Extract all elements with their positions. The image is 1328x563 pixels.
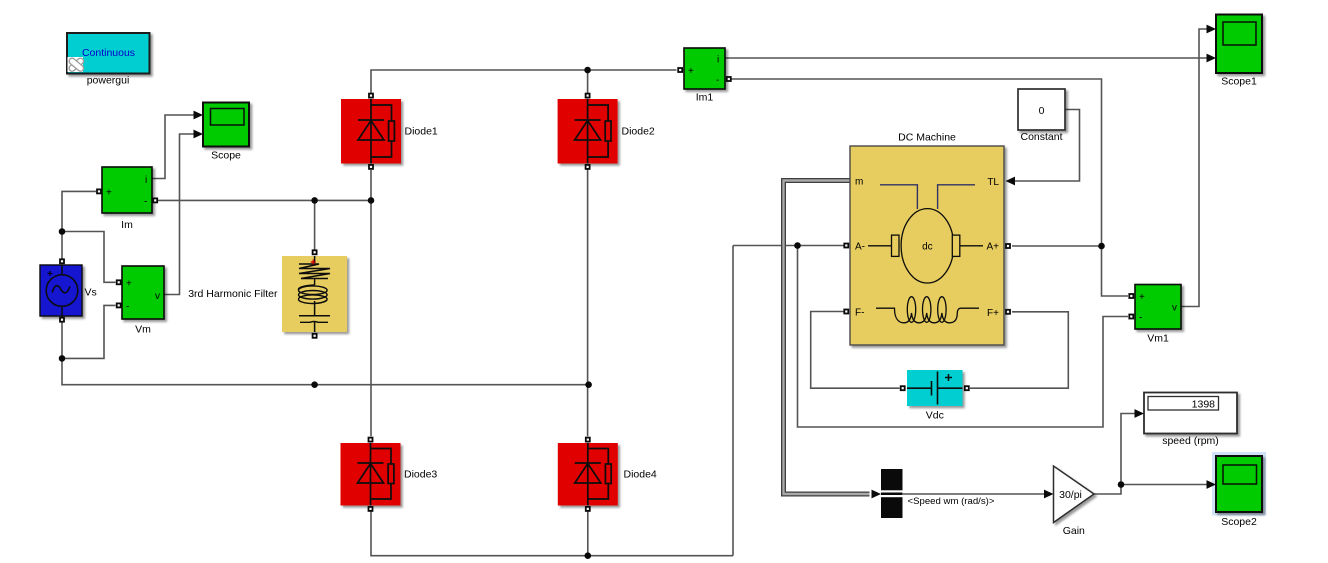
wire Vs- down to junction B (61, 317, 63, 359)
svg-text:Gain: Gain (1063, 525, 1085, 537)
port square Filter top (312, 249, 318, 255)
svg-text:Diode3: Diode3 (404, 469, 437, 481)
junction node A- branch (794, 242, 801, 249)
svg-text:v: v (1172, 303, 1177, 314)
wire left node down to negative DC rail (732, 246, 734, 556)
wire Diode2 bottom to Diode4 top (587, 167, 589, 436)
speed display block (1144, 393, 1237, 434)
svg-text:F+: F+ (987, 308, 999, 319)
wire Gain output up to speed display (1094, 414, 1136, 495)
wire Bus Selector output to Gain input (903, 493, 1045, 495)
arrowhead Bus Selector input (872, 490, 882, 499)
arrowhead Scope input 2 (194, 130, 204, 139)
port square Vm1 - (1128, 314, 1134, 320)
powergui block (67, 33, 150, 74)
Gain block (1054, 466, 1095, 523)
svg-text:Constant: Constant (1020, 131, 1062, 143)
wire Vm v output to Scope input 2 (164, 134, 194, 295)
Bus Selector block (881, 469, 903, 518)
port square Vs bottom (59, 317, 65, 323)
DC Machine block (850, 146, 1004, 345)
junction node filter bottom tap (311, 381, 318, 388)
port square Diode1 bottom (368, 164, 374, 170)
svg-text:+: + (126, 279, 132, 290)
wire F- to Vdc left terminal (811, 312, 900, 389)
Constant block (1018, 89, 1065, 130)
port square Vm1 + (1128, 293, 1134, 299)
arrowhead Scope input 1 (194, 111, 204, 120)
svg-text:Vs: Vs (85, 287, 97, 299)
port square Vdc left (900, 385, 906, 391)
port square DC Machine A+ (1005, 243, 1011, 249)
Scope1 block (1216, 15, 1262, 74)
svg-text:+: + (106, 188, 112, 199)
wire A- to left node (733, 245, 844, 247)
svg-text:Diode2: Diode2 (622, 126, 655, 138)
junction node top DC rail at Diode2 (584, 67, 591, 74)
wire Gain output branch to Scope2 (1121, 484, 1207, 486)
svg-text:A+: A+ (986, 242, 999, 253)
port square Diode3 top (368, 437, 374, 443)
svg-text:<Speed wm (rad/s)>: <Speed wm (rad/s)> (908, 496, 995, 507)
svg-text:m: m (855, 177, 863, 188)
svg-text:-: - (1139, 313, 1142, 324)
AC voltage source Vs block (40, 265, 82, 316)
Scope block (203, 103, 249, 147)
current measurement Im block (102, 167, 152, 213)
wire A+ junction to A+ port (1012, 245, 1102, 247)
DC voltage source Vdc block (907, 370, 963, 406)
arrowhead speed display input (1135, 409, 1145, 418)
svg-text:powergui: powergui (87, 75, 130, 87)
port square DC Machine A- (843, 243, 849, 249)
wire junction B to bottom AC rail and Diode2/Diode4 midpoint (62, 358, 589, 384)
svg-text:Scope1: Scope1 (1221, 75, 1257, 87)
wire A+ junction to Vm1+ (1102, 246, 1129, 296)
junction node filter top tap (311, 197, 318, 204)
port square Vdc right (964, 385, 970, 391)
arrowhead Scope2 input (1207, 480, 1217, 489)
svg-text:0: 0 (1039, 105, 1045, 117)
port square Im1 - (726, 76, 732, 82)
bus wire m output to Bus Selector (outer) (784, 181, 870, 495)
wire junction A to Vm+ (62, 232, 116, 283)
port square Im + (96, 189, 102, 195)
port square Diode2 top (585, 93, 591, 99)
voltage measurement Vm1 block (1135, 285, 1181, 330)
svg-text:30/pi: 30/pi (1059, 489, 1082, 501)
port square DC Machine F+ (1005, 309, 1011, 315)
wire negative DC rail to Diode3 bottom (371, 509, 733, 556)
Scope2 selection highlight (1212, 452, 1266, 516)
svg-text:DC Machine: DC Machine (898, 132, 956, 144)
port square Diode1 top (368, 93, 374, 99)
wire Im i output to Scope input 1 (153, 115, 195, 179)
port square DC Machine F- (843, 309, 849, 315)
port square Filter bottom (312, 333, 318, 339)
arrowhead Gain input (1044, 490, 1054, 499)
svg-text:-: - (716, 75, 719, 86)
port square Vm - (116, 303, 122, 309)
Diode3 block (341, 443, 401, 506)
port square Im1 + (677, 67, 683, 73)
wire Diode4 bottom to negative DC rail (587, 509, 589, 556)
svg-text:Vdc: Vdc (926, 410, 944, 422)
svg-text:v: v (155, 291, 160, 302)
svg-text:3rd Harmonic Filter: 3rd Harmonic Filter (188, 288, 278, 300)
wire Im1- down to A+ junction (730, 79, 1102, 246)
Scope2 block (1216, 456, 1262, 512)
svg-text:A-: A- (855, 242, 865, 253)
svg-text:Vm: Vm (135, 324, 151, 336)
svg-text:-: - (126, 302, 129, 313)
svg-text:-: - (144, 197, 147, 208)
svg-text:dc: dc (922, 242, 933, 253)
port square Vs top (59, 258, 65, 264)
svg-text:+: + (47, 269, 53, 280)
voltage measurement Vm block (122, 266, 164, 319)
svg-text:+: + (1139, 292, 1145, 303)
junction node D2/D4 midpoint (585, 381, 592, 388)
wire Vm1 v output to Scope1 input 1 (1182, 29, 1208, 307)
svg-text:Diode1: Diode1 (405, 126, 438, 138)
wire Diode1 top to Im1+ along top DC rail (371, 70, 677, 96)
arrowhead Scope1 input 1 (1207, 25, 1217, 34)
wire Diode2 top to top DC rail (587, 70, 589, 96)
port square Im - (152, 198, 158, 204)
svg-text:Scope2: Scope2 (1221, 516, 1257, 528)
Diode4 block (558, 443, 618, 506)
arrowhead TL input (1006, 177, 1016, 186)
svg-text:+: + (688, 66, 694, 77)
wire node to 3rd Harmonic Filter top (314, 200, 316, 249)
svg-text:i: i (145, 175, 147, 186)
arrowhead Scope1 input 2 (1207, 54, 1217, 63)
svg-text:Continuous: Continuous (82, 47, 135, 59)
current measurement Im1 block (684, 48, 725, 89)
junction node negative rail at Diode4 (585, 552, 592, 559)
wire junction B to Vm- (62, 305, 116, 358)
junction node A+ branch (1098, 243, 1105, 250)
3rd Harmonic Filter block (282, 256, 347, 332)
Diode1 block (341, 99, 401, 164)
svg-text:Im: Im (121, 219, 133, 231)
port square Vm + (116, 279, 122, 285)
wire Diode1 bottom to Diode3 top (370, 170, 372, 436)
wire Constant to TL input (1015, 110, 1080, 182)
wire Im- to D1/D3 midpoint node (158, 199, 371, 201)
svg-text:1398: 1398 (1192, 399, 1216, 411)
junction node Gain output branch (1118, 481, 1125, 488)
port square Diode4 top (585, 437, 591, 443)
svg-text:speed (rpm): speed (rpm) (1162, 435, 1219, 447)
svg-text:TL: TL (987, 177, 999, 188)
svg-text:Diode4: Diode4 (624, 469, 657, 481)
wire Im1 i output to Scope1 input 2 (725, 57, 1207, 59)
junction node Vs plus branch (59, 228, 66, 235)
junction node Vs minus branch (59, 355, 66, 362)
port square Diode2 bottom (585, 164, 591, 170)
svg-text:F-: F- (855, 308, 864, 319)
port square Diode4 bottom (585, 506, 591, 512)
wire Vs+ up to Im+ (62, 191, 96, 258)
Diode2 block (558, 99, 618, 164)
wire Vdc right terminal to F+ (970, 312, 1068, 388)
svg-text:Scope: Scope (211, 150, 241, 162)
svg-text:Im1: Im1 (696, 91, 714, 103)
bus wire m output to Bus Selector (core) (784, 181, 870, 495)
svg-text:Vm1: Vm1 (1147, 333, 1169, 345)
wire A- junction down and right to Vm1- (798, 246, 1129, 428)
port square Diode3 bottom (368, 506, 374, 512)
svg-text:i: i (717, 55, 719, 66)
junction node D1/D3 midpoint (368, 197, 375, 204)
